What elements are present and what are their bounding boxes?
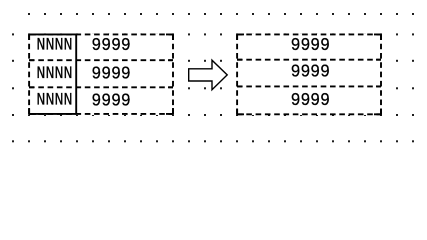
- svg-text:9999: 9999: [291, 35, 330, 56]
- dot grid: [12, 13, 414, 142]
- transformation arrow: [189, 60, 228, 89]
- left record box outer dashed border: [29, 34, 173, 114]
- svg-text:NNNN: NNNN: [36, 35, 72, 55]
- left box row divider 1: [29, 59, 173, 61]
- svg-text:NNNN: NNNN: [36, 64, 72, 84]
- svg-text:9999: 9999: [91, 90, 130, 111]
- NNNN field solid separator and solid top/bottom over key field: [29, 34, 76, 114]
- right table outer dashed border: [237, 34, 381, 114]
- left record box background: [28, 34, 174, 116]
- svg-text:9999: 9999: [291, 61, 330, 82]
- right table row divider 2: [237, 85, 381, 87]
- svg-text:9999: 9999: [91, 63, 130, 84]
- svg-text:NNNN: NNNN: [36, 91, 72, 111]
- right table row divider 1: [237, 59, 381, 61]
- right table box background: [236, 34, 382, 116]
- svg-text:9999: 9999: [291, 90, 330, 111]
- svg-text:9999: 9999: [91, 35, 130, 56]
- right table corner pieces: [237, 34, 381, 114]
- left box corner pieces: [29, 34, 173, 114]
- left box row divider 2: [29, 86, 173, 88]
